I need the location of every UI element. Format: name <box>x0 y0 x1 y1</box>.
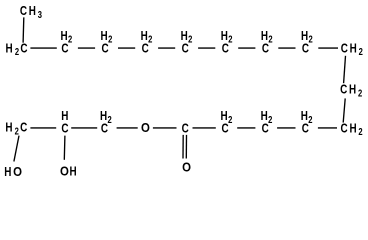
double bond C15=O line 2 <box>185 135 187 159</box>
bond C10-C11 (right column lower) <box>343 98 345 122</box>
label H2 above C7 <box>261 28 273 46</box>
group HO (primary hydroxyl) <box>4 164 22 179</box>
svg-text:H: H <box>221 108 228 123</box>
svg-text:H: H <box>100 108 107 123</box>
svg-text:H: H <box>301 108 308 123</box>
atom C2 (top row) <box>61 40 69 55</box>
bond C7-C8 (top row) <box>278 47 295 49</box>
atom C3 (top row) <box>102 40 110 55</box>
atom C glycerol C2 <box>61 120 69 135</box>
svg-text:2: 2 <box>359 47 364 58</box>
bond C5-C6 (top row) <box>198 47 215 49</box>
label H above glycerol C2 <box>61 108 68 123</box>
svg-text:H: H <box>60 28 67 43</box>
bond glycerol C3 to ester O <box>117 127 138 129</box>
atom C13 (bottom row) <box>262 120 270 135</box>
atom CH2 C10 (right column middle) <box>340 82 362 100</box>
double bond C15=O line 1 <box>182 135 184 159</box>
svg-text:H: H <box>301 28 308 43</box>
svg-text:2: 2 <box>188 35 193 46</box>
svg-text:H: H <box>349 82 356 97</box>
bond C4-C5 (top row) <box>158 47 175 49</box>
atom O carbonyl oxygen <box>182 159 191 174</box>
label H2 above C12 <box>301 108 313 126</box>
svg-text:H: H <box>349 120 356 135</box>
svg-text:H: H <box>221 28 228 43</box>
bond glycerol C2 to OH (vertical) <box>63 136 66 160</box>
atom CH3 (chain terminal methyl) <box>20 3 42 21</box>
svg-text:H: H <box>4 164 11 179</box>
atom C14 (bottom row) <box>222 120 230 135</box>
label H2 above C6 <box>221 28 233 46</box>
bond glycerol C1-C2 <box>30 127 56 129</box>
bond C11-C12 (bottom row) <box>318 127 337 129</box>
atom C4 (top row) <box>142 40 150 55</box>
label H2 above C14 <box>221 108 233 126</box>
svg-text:2: 2 <box>68 35 73 46</box>
svg-text:H: H <box>141 28 148 43</box>
atom C12 (bottom row) <box>302 120 310 135</box>
bond C2-C3 (top row) <box>78 47 95 49</box>
bond C13-C14 (bottom row) <box>237 127 255 129</box>
atom C7 (top row) <box>262 40 270 55</box>
bond glycerol C1 to HO (diagonal) <box>14 136 19 162</box>
svg-text:2: 2 <box>108 35 113 46</box>
atom CH2 C11 (bottom right) <box>341 120 363 138</box>
atom CH2 C9 (top right) <box>341 40 363 58</box>
svg-text:C: C <box>20 120 28 135</box>
svg-text:2: 2 <box>15 47 20 58</box>
svg-text:O: O <box>141 120 150 135</box>
bond C8-C9 (top row) <box>318 47 338 49</box>
atom O ester oxygen <box>141 120 150 135</box>
atom C glycerol C3 <box>101 120 109 135</box>
svg-text:C: C <box>341 120 349 135</box>
atom C15 carbonyl carbon <box>182 120 190 135</box>
atom C6 (top row) <box>222 40 230 55</box>
svg-text:H: H <box>181 28 188 43</box>
label H2 above C5 <box>181 28 193 46</box>
svg-text:2: 2 <box>107 115 112 126</box>
bond C9-C10 (right column upper) <box>344 56 346 83</box>
atom C5 (top row) <box>182 40 190 55</box>
bond ester O to C15 <box>153 127 177 129</box>
svg-text:C: C <box>182 120 190 135</box>
svg-text:C: C <box>20 40 28 55</box>
svg-text:H: H <box>5 120 12 135</box>
svg-text:C: C <box>341 40 349 55</box>
svg-text:2: 2 <box>148 35 153 46</box>
bond C6-C7 (top row) <box>238 47 255 49</box>
svg-text:H: H <box>29 3 36 18</box>
bond C14-C15 carbonyl (bottom row) <box>193 127 216 129</box>
svg-text:H: H <box>101 28 108 43</box>
bond C1-C2 (top row) <box>30 47 56 49</box>
svg-text:O: O <box>13 164 22 179</box>
svg-text:H: H <box>6 40 13 55</box>
label H2 above C2 <box>60 28 72 46</box>
svg-text:H: H <box>261 28 268 43</box>
svg-text:2: 2 <box>308 35 313 46</box>
label H2 above glycerol C3 <box>100 108 112 126</box>
bond CH3-CH2 (near vertical) <box>22 17 25 42</box>
svg-text:2: 2 <box>308 115 313 126</box>
svg-text:O: O <box>60 163 69 178</box>
svg-text:2: 2 <box>358 127 363 138</box>
svg-text:2: 2 <box>228 115 233 126</box>
svg-text:H: H <box>70 163 77 178</box>
label H2 above C4 <box>141 28 153 46</box>
bond glycerol C2-C3 <box>71 127 97 129</box>
group OH (secondary hydroxyl) <box>60 163 77 178</box>
bond C12-C13 (bottom row) <box>277 127 295 129</box>
svg-text:2: 2 <box>268 35 273 46</box>
atom C8 (top row) <box>302 40 310 55</box>
label H2 above C8 <box>301 28 313 46</box>
svg-text:3: 3 <box>38 10 43 21</box>
svg-text:2: 2 <box>268 115 273 126</box>
label H2 above C13 <box>261 108 273 126</box>
atom H2C glycerol C1 <box>5 120 27 138</box>
svg-text:C: C <box>340 82 348 97</box>
svg-text:H: H <box>350 40 357 55</box>
atom H2C (top row C1) <box>6 40 28 58</box>
svg-text:H: H <box>61 108 68 123</box>
svg-text:2: 2 <box>228 35 233 46</box>
bond C3-C4 (top row) <box>118 47 135 49</box>
label H2 above C3 <box>101 28 113 46</box>
svg-text:H: H <box>261 108 268 123</box>
svg-text:O: O <box>182 159 191 174</box>
svg-text:2: 2 <box>358 88 363 99</box>
svg-text:C: C <box>20 3 28 18</box>
